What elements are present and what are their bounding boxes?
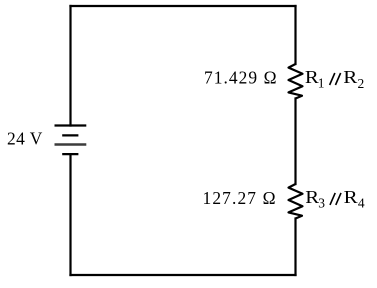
- wire right lower: [294, 219, 296, 276]
- wire right upper: [294, 6, 296, 64]
- svg-text:4: 4: [358, 196, 365, 211]
- wire bottom: [71, 274, 296, 276]
- wire top: [71, 5, 296, 7]
- label 24 V: [7, 129, 43, 149]
- battery 24 V: [55, 126, 87, 155]
- svg-text:127.27 Ω: 127.27 Ω: [203, 188, 276, 208]
- label R3 // R4: [305, 187, 365, 211]
- label R1 // R2: [305, 67, 364, 91]
- resistor R3 // R4: [289, 184, 303, 219]
- wire left lower: [69, 154, 71, 275]
- svg-text:R: R: [343, 67, 357, 87]
- svg-text:3: 3: [318, 195, 325, 210]
- resistor R1 // R2: [289, 64, 303, 99]
- svg-text:2: 2: [358, 76, 365, 91]
- svg-text:R: R: [344, 187, 358, 207]
- svg-text:1: 1: [318, 75, 325, 90]
- value label 71.429 Ω: [204, 68, 277, 88]
- svg-text:71.429 Ω: 71.429 Ω: [204, 68, 277, 88]
- wire left upper: [69, 6, 71, 126]
- value label 127.27 Ω: [203, 188, 276, 208]
- svg-text:24 V: 24 V: [7, 129, 43, 149]
- wire right middle: [294, 99, 296, 185]
